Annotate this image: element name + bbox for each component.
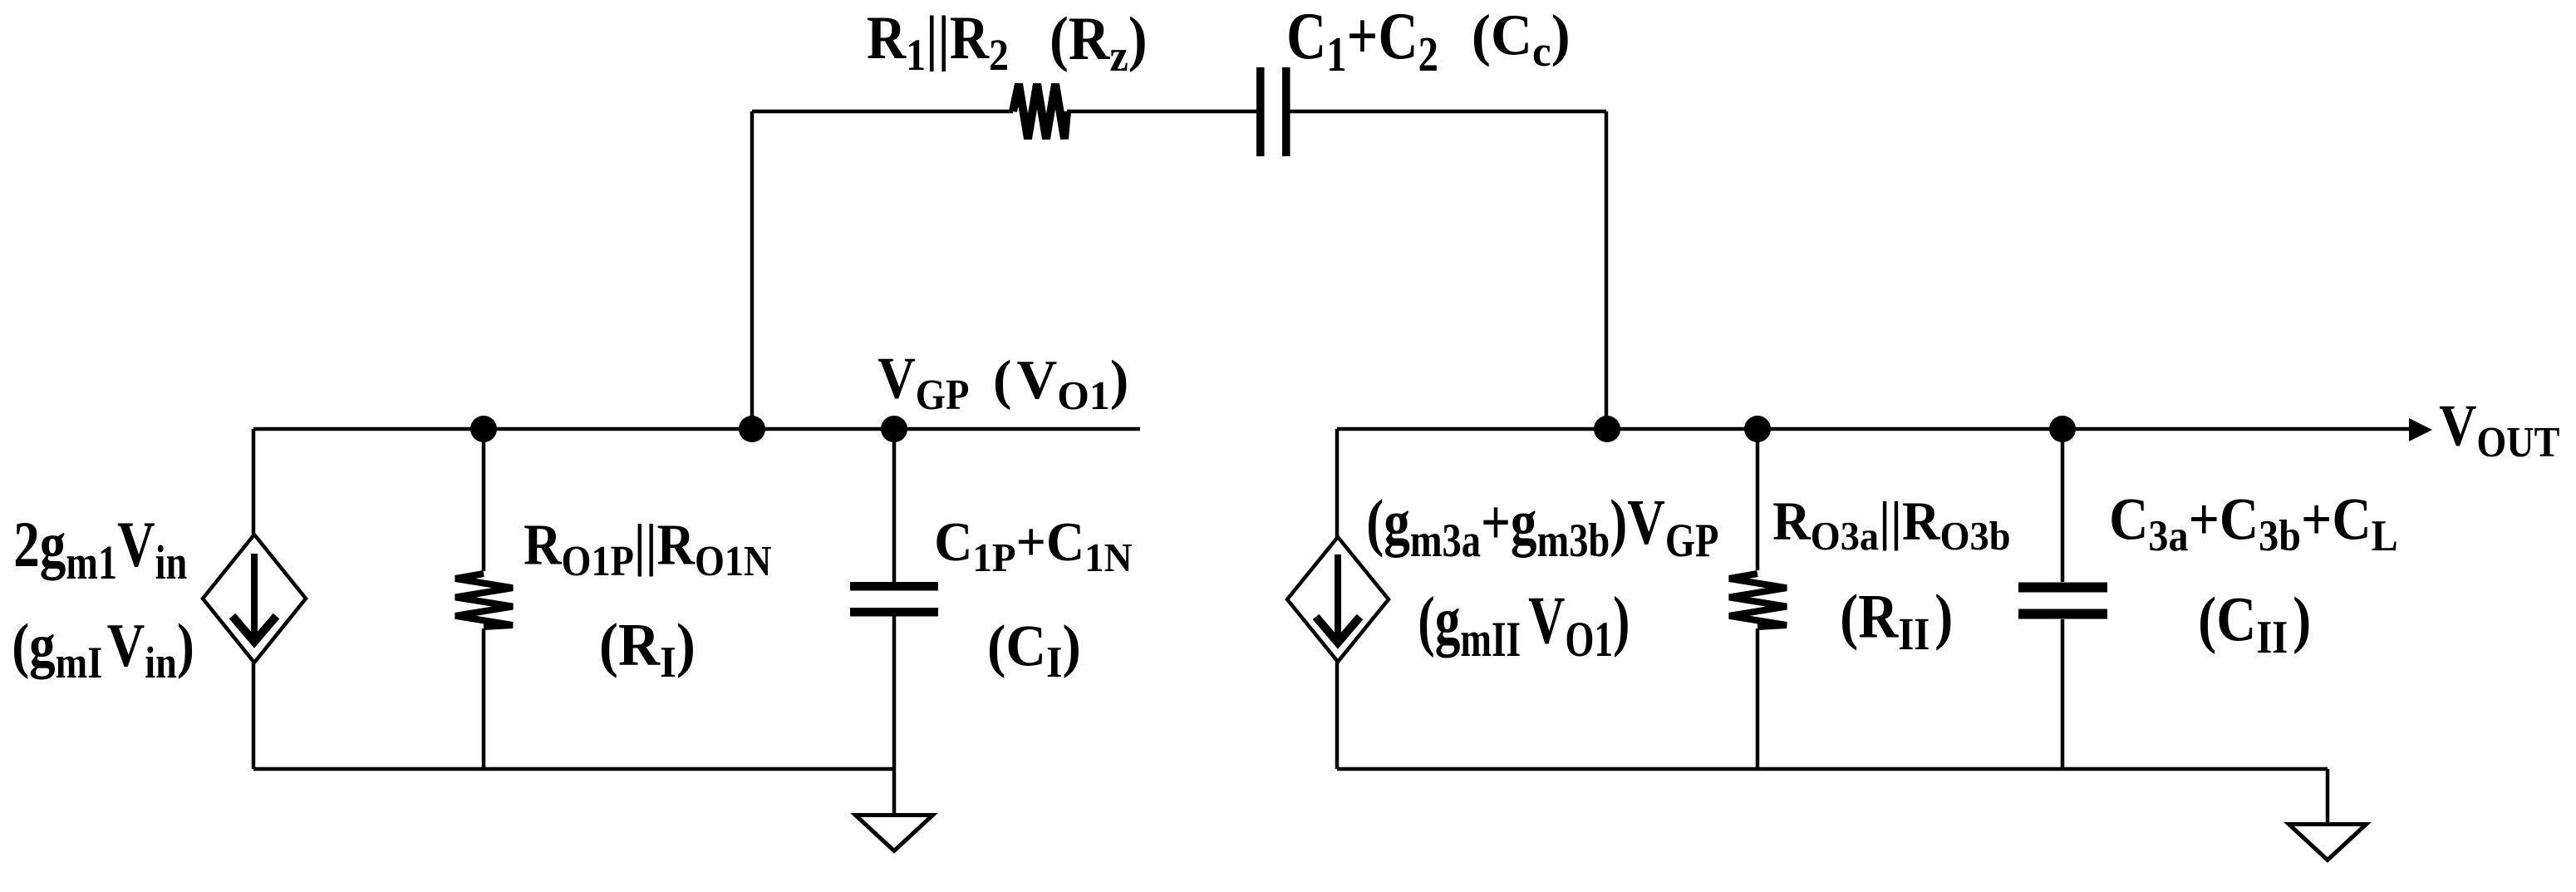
svg-text:(CI): (CI) [987, 614, 1081, 687]
svg-text:(Cc): (Cc) [1472, 3, 1571, 76]
svg-text:(RI): (RI) [599, 613, 696, 687]
svg-text:(RII): (RII) [1840, 583, 1953, 660]
svg-text:(CII): (CII) [2198, 584, 2311, 663]
svg-text:C1+C2: C1+C2 [1286, 0, 1438, 81]
svg-text:R1||R2: R1||R2 [867, 4, 1009, 80]
svg-text:(Rz): (Rz) [1050, 6, 1148, 81]
